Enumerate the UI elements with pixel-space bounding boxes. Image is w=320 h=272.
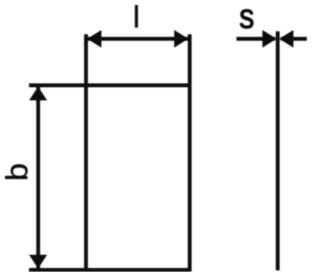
label s (thickness) (240, 9, 253, 28)
plate front view left edge with extension line for dimension l (84, 34, 88, 271)
dimension line l (88, 37, 189, 41)
label b (width) rotated 90 degrees (5, 164, 27, 178)
dimension line s left tail (237, 37, 276, 41)
dimension line b (36, 87, 40, 269)
plate front view top edge with extension line for dimension b (29, 83, 191, 87)
dimension line s right tail (281, 37, 307, 41)
plate side view edge (276, 31, 280, 270)
label l (length) (135, 5, 138, 27)
arrowhead of dimension s pointing right at side view (262, 30, 276, 48)
arrowhead of dimension b top end (29, 87, 47, 101)
plate front view bottom edge with extension line for dimension b (29, 268, 191, 272)
arrowhead of dimension l right end (174, 30, 188, 48)
arrowhead of dimension s pointing left at side view (279, 30, 293, 48)
plate front view right edge with extension line for dimension l (188, 34, 192, 271)
arrowhead of dimension b bottom end (29, 255, 47, 269)
arrowhead of dimension l left end (87, 30, 101, 48)
